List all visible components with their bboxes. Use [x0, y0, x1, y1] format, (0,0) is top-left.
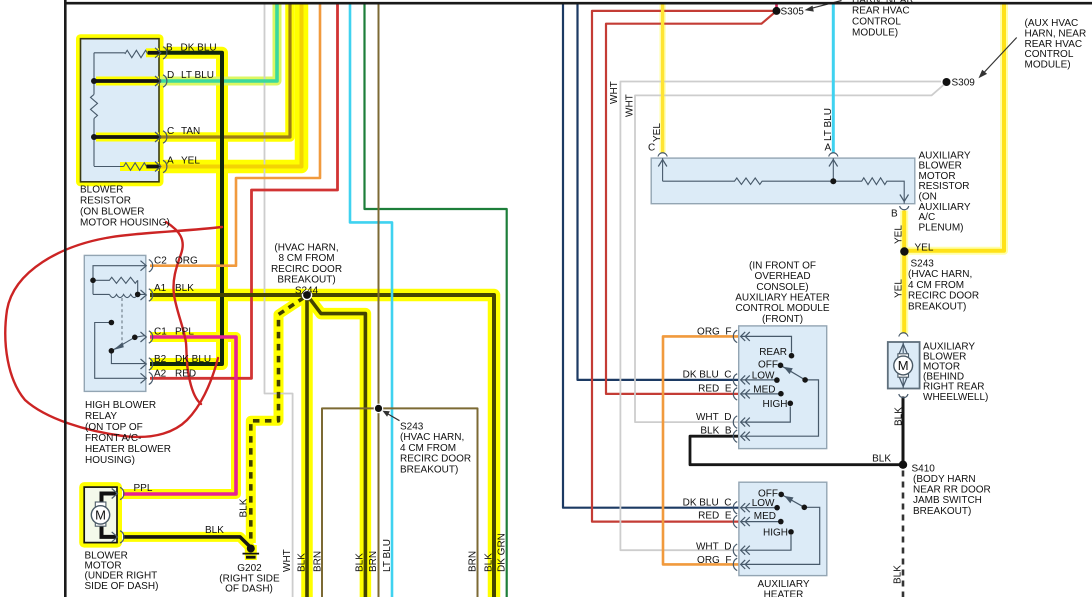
highlight halo wire YEL right big: [904, 4, 1004, 251]
highlight band wire BLK S244 right branch: [307, 295, 365, 597]
svg-text:MOTOR HOUSING): MOTOR HOUSING): [80, 218, 170, 229]
pin C2 connector: [141, 260, 153, 272]
svg-text:S309: S309: [952, 78, 976, 89]
wire DK BLU right inner: [578, 4, 741, 380]
svg-text:WHT D: WHT D: [696, 412, 732, 423]
wire PPL C1 to blower motor: [123, 337, 236, 494]
svg-text:S243: S243: [911, 259, 935, 270]
svg-text:WHT: WHT: [609, 81, 620, 104]
thick lead row C: [94, 135, 161, 139]
page top border: [64, 2, 1092, 5]
module1 common to B: [741, 380, 819, 436]
relay coil resistor branch: [93, 277, 138, 294]
svg-text:MED: MED: [754, 511, 776, 522]
svg-text:ORG: ORG: [175, 256, 198, 267]
module2 pin C connector: [733, 502, 750, 514]
module1 E internal lead: [741, 393, 781, 395]
svg-text:(ON TOP OF: (ON TOP OF: [85, 422, 143, 433]
arrow to S309: [979, 38, 1017, 79]
blower motor internal bracket: [102, 494, 118, 537]
svg-text:REAR: REAR: [759, 347, 787, 358]
svg-text:LT BLU: LT BLU: [181, 70, 214, 81]
svg-text:NEAR RR DOOR: NEAR RR DOOR: [913, 485, 991, 496]
svg-text:DK BLU C: DK BLU C: [683, 370, 732, 381]
aux heater control module front box: [739, 326, 827, 449]
highlight band inside box row B: [146, 48, 159, 57]
svg-text:BLK: BLK: [893, 565, 904, 584]
relay fixed contact lead to A2: [95, 323, 146, 379]
highlight band G202 ground: [245, 545, 257, 560]
node S410: [899, 461, 907, 469]
thick lead row A: [146, 165, 160, 169]
blower resistor internal left bus: [93, 53, 95, 166]
svg-text:BRN: BRN: [468, 551, 479, 572]
svg-text:(FRONT): (FRONT): [762, 314, 803, 325]
module1 F internal lead: [741, 336, 792, 352]
svg-text:BLK: BLK: [205, 525, 224, 536]
svg-text:YEL: YEL: [894, 225, 905, 244]
resistor zigzag row B: [125, 50, 148, 57]
module2 pin E connector: [733, 515, 750, 527]
svg-text:CONTROL MODULE: CONTROL MODULE: [735, 303, 829, 314]
wire LT BLU center vertical: [350, 4, 392, 597]
module1 pin B connector: [733, 430, 750, 442]
svg-text:HIGH: HIGH: [763, 528, 788, 539]
svg-text:LOW: LOW: [752, 498, 775, 509]
node S243 left: [374, 404, 382, 412]
pin C connector: [155, 131, 167, 143]
svg-text:YEL: YEL: [652, 123, 663, 142]
svg-text:C: C: [167, 126, 174, 137]
relay blade arrowhead: [113, 342, 124, 350]
svg-text:LT BLU: LT BLU: [382, 539, 393, 572]
highlight band on blower motor box outline: [84, 487, 117, 542]
wire WHT right inner to S309: [635, 85, 944, 422]
pin A2 connector: [141, 372, 153, 384]
svg-text:BRN: BRN: [313, 551, 324, 572]
blower resistor row A lead: [94, 166, 124, 168]
relay C2 internal lead: [93, 266, 146, 281]
highlight band inside box row D: [96, 77, 159, 86]
module2 switch blade: [781, 494, 804, 507]
aux blower motor resistor box: [651, 158, 915, 204]
relay switch blade: [111, 337, 134, 351]
svg-text:RED E: RED E: [698, 384, 732, 395]
svg-text:BLK: BLK: [239, 498, 250, 517]
arrow to S243 left: [383, 411, 400, 421]
highlight band wire BLK blower motor to G202: [123, 537, 251, 548]
svg-text:TAN: TAN: [181, 126, 200, 137]
aux blower motor box: [888, 342, 920, 389]
module1 pin E connector: [733, 388, 750, 400]
svg-text:BLK: BLK: [894, 407, 905, 426]
module1 blade arrowhead: [784, 367, 793, 374]
svg-text:(HVAC HARN,: (HVAC HARN,: [908, 269, 972, 280]
relay blade to B2: [111, 351, 145, 364]
relay contact C1 lead: [135, 336, 146, 338]
svg-text:ORG F: ORG F: [697, 327, 731, 338]
svg-text:PPL: PPL: [134, 483, 153, 494]
thick lead row D: [94, 79, 161, 83]
pin C1 connector: [141, 331, 153, 343]
svg-text:(BODY HARN: (BODY HARN: [913, 474, 976, 485]
svg-text:LT BLU: LT BLU: [823, 108, 834, 141]
resistor zigzag row A: [124, 163, 147, 170]
wire YEL aux resistor C: [661, 4, 664, 153]
module1 MED dot: [778, 391, 784, 397]
annotation red loop outer: [5, 227, 222, 437]
svg-text:(IN FRONT OF: (IN FRONT OF: [749, 260, 816, 271]
wire ORG C2: [150, 4, 320, 266]
svg-text:PPL: PPL: [175, 326, 194, 337]
aux resistor pin C internal lead: [662, 158, 664, 181]
module2 common to F: [741, 507, 820, 564]
svg-text:DK BLU: DK BLU: [181, 43, 217, 54]
svg-text:AUXILIARY HEATER: AUXILIARY HEATER: [735, 293, 829, 304]
module2 common dot: [802, 505, 808, 511]
svg-text:M: M: [898, 358, 909, 373]
svg-text:HEATER BLOWER: HEATER BLOWER: [85, 444, 171, 455]
relay coil dot left: [90, 278, 96, 284]
module1 HIGH dot: [788, 401, 794, 407]
highlight halo wire YEL aux C: [659, 4, 666, 153]
wire RED A2: [150, 4, 338, 378]
svg-text:LOW: LOW: [752, 371, 775, 382]
svg-text:CONSOLE): CONSOLE): [756, 282, 808, 293]
junction dot row D: [91, 78, 97, 84]
pin A1 connector: [141, 289, 153, 301]
module1 REAR dot: [789, 353, 795, 359]
svg-text:RED: RED: [175, 369, 196, 380]
svg-text:8 CM FROM: 8 CM FROM: [278, 253, 334, 264]
wire DK BLU right outer: [563, 4, 740, 508]
svg-text:RELAY: RELAY: [85, 411, 117, 422]
ground G202 symbol: [243, 545, 260, 558]
module1 pin F connector: [733, 330, 750, 342]
pin motor BLK connector: [112, 531, 124, 543]
aux motor internal leads: [902, 342, 904, 389]
module2 OFF dot: [778, 492, 784, 498]
svg-text:HEATER: HEATER: [764, 589, 804, 597]
module1 pin C connector: [733, 374, 750, 386]
svg-text:(HVAC HARN,: (HVAC HARN,: [274, 243, 338, 254]
svg-text:AUXILIARY: AUXILIARY: [757, 579, 809, 590]
svg-text:WHT: WHT: [625, 94, 636, 117]
svg-text:WHEELWELL): WHEELWELL): [923, 392, 988, 403]
resistor vertical zigzag: [91, 94, 98, 118]
highlight band inside box row C: [96, 133, 159, 142]
pin B arc: [900, 206, 909, 210]
relay coil inductor branch: [93, 280, 146, 297]
thick lead row B: [148, 51, 161, 55]
aux resistor junction dot A: [830, 178, 836, 184]
module2 pin D connector: [733, 544, 750, 556]
svg-text:DK GRN: DK GRN: [497, 533, 508, 572]
svg-text:C: C: [648, 143, 655, 154]
svg-text:BLK: BLK: [297, 553, 308, 572]
highlight band wire DK BLU B: [146, 53, 222, 364]
high blower relay box: [84, 255, 146, 391]
svg-text:MODULE): MODULE): [1025, 59, 1071, 70]
node S309: [943, 78, 951, 86]
module2 C internal lead: [741, 507, 777, 509]
wire BRN S243 branch: [322, 408, 478, 597]
svg-text:(ON BLOWER: (ON BLOWER: [80, 207, 144, 218]
wire BLK S244 right branch: [307, 295, 365, 597]
relay coil dot right: [135, 292, 141, 298]
pin A arc: [829, 153, 838, 157]
svg-text:BLK B: BLK B: [700, 426, 731, 437]
svg-text:S305: S305: [781, 7, 805, 18]
relay blade pivot dot: [109, 348, 115, 354]
node S305: [773, 7, 781, 15]
aux motor arrow top: [899, 344, 908, 355]
pin C arc: [658, 153, 667, 157]
svg-text:4 CM FROM: 4 CM FROM: [400, 443, 456, 454]
blower motor box: [84, 487, 117, 542]
wire YEL right big to S243: [904, 4, 1004, 251]
wire LT BLU D (drawn green): [150, 4, 277, 81]
module2 pin F connector: [733, 558, 750, 570]
highlight band wire BLK A1 main: [150, 295, 494, 597]
blower motor M circle: [91, 506, 109, 524]
aux motor brush tab bottom: [898, 373, 909, 377]
svg-text:HIGH BLOWER: HIGH BLOWER: [85, 400, 156, 411]
svg-text:MED: MED: [753, 385, 775, 396]
svg-text:OF DASH): OF DASH): [225, 584, 273, 595]
wire BLK dashed below S410: [902, 471, 905, 597]
module1 LOW dot: [774, 377, 780, 383]
highlight band wire PPL: [123, 337, 236, 494]
pin D connector: [155, 75, 167, 87]
highlight band wire YEL A: [150, 2, 302, 167]
svg-text:CONTROL: CONTROL: [852, 17, 901, 28]
module1 C internal lead: [741, 379, 777, 381]
aux resistor pin A internal lead: [832, 158, 834, 181]
highlight band wire BLK S244 center branch: [301, 295, 313, 597]
svg-text:BREAKOUT): BREAKOUT): [277, 275, 335, 286]
node S243 right: [900, 247, 908, 255]
blower resistor row B lead: [94, 52, 125, 54]
wire DK GRN: [365, 4, 507, 597]
svg-text:REAR HVAC: REAR HVAC: [852, 6, 910, 17]
wire BRN main vertical: [378, 4, 380, 597]
wire BLK aux motor to S410: [902, 397, 905, 465]
svg-text:DK BLU C: DK BLU C: [683, 498, 732, 509]
svg-text:B2: B2: [154, 354, 167, 365]
highlight band wire BLK dashed ground branch: [251, 297, 305, 543]
highlight halo wire YEL resistor B to aux motor: [900, 211, 908, 334]
svg-text:A: A: [825, 143, 832, 154]
svg-text:FRONT A/C-: FRONT A/C-: [85, 433, 141, 444]
svg-text:BLK: BLK: [484, 553, 495, 572]
pin B2 connector: [141, 358, 153, 370]
svg-text:4 CM FROM: 4 CM FROM: [908, 280, 964, 291]
aux resistor element row: [663, 178, 905, 204]
wire BLK S244 center branch: [305, 295, 309, 597]
svg-text:M: M: [95, 508, 106, 523]
svg-text:BLK: BLK: [872, 454, 891, 465]
relay armature dashed link: [121, 298, 123, 345]
pin A connector: [155, 160, 167, 172]
svg-text:BLK: BLK: [355, 553, 366, 572]
highlight band wire LT BLU D (lime): [150, 2, 277, 81]
svg-text:G202: G202: [237, 563, 262, 574]
svg-text:BLK: BLK: [175, 283, 194, 294]
svg-text:BREAKOUT): BREAKOUT): [908, 301, 966, 312]
svg-text:RESISTOR: RESISTOR: [80, 196, 131, 207]
module1 D internal lead: [741, 407, 790, 423]
svg-text:RED E: RED E: [698, 511, 732, 522]
svg-text:DK BLU: DK BLU: [175, 354, 211, 365]
svg-text:A1: A1: [154, 283, 167, 294]
svg-text:RECIRC DOOR: RECIRC DOOR: [908, 291, 979, 302]
module1 OFF dot: [778, 363, 784, 369]
svg-text:BLOWER: BLOWER: [80, 185, 123, 196]
module2 MED dot: [778, 519, 784, 525]
wire BLK dashed to G202: [251, 298, 304, 542]
pin motor PPL connector: [112, 487, 124, 499]
svg-text:YEL: YEL: [181, 156, 200, 167]
pin B connector: [155, 47, 167, 59]
wire TAN C: [150, 4, 290, 137]
wire YEL resistor B to aux motor: [902, 211, 906, 334]
svg-text:SIDE OF DASH): SIDE OF DASH): [85, 581, 159, 592]
highlight band on blower resistor box outline: [81, 39, 160, 182]
node S244: [302, 290, 311, 299]
svg-text:A2: A2: [154, 369, 167, 380]
arrow to S305: [805, 1, 842, 12]
highlight band wire TAN C: [150, 2, 290, 137]
annotation red loop inner stroke: [166, 222, 201, 404]
svg-text:ORG F: ORG F: [697, 555, 731, 566]
wire LT BLU aux resistor A: [832, 4, 835, 153]
aux heater control module rear box: [739, 482, 827, 575]
wire BLK module1 B to S410: [690, 436, 903, 465]
svg-text:S243: S243: [400, 422, 424, 433]
svg-text:RECIRC DOOR: RECIRC DOOR: [400, 454, 471, 465]
wire WHT right outer to S309: [620, 82, 941, 551]
svg-text:BREAKOUT): BREAKOUT): [913, 506, 971, 517]
relay fixed contact dot: [109, 320, 115, 326]
svg-text:BRN: BRN: [368, 551, 379, 572]
wire WHT left vertical: [265, 4, 293, 597]
svg-text:OFF: OFF: [758, 359, 778, 370]
aux resistor arrow C: [658, 160, 667, 167]
module2 LOW dot: [774, 505, 780, 511]
blower motor brush tab top: [95, 502, 106, 507]
aux motor pin arc bottom: [899, 394, 908, 398]
wire RED stub above S305: [775, 3, 778, 9]
svg-text:D: D: [167, 70, 174, 81]
wire RED right inner S305: [606, 11, 777, 394]
svg-text:BREAKOUT): BREAKOUT): [400, 464, 458, 475]
module2 blade arrowhead: [784, 496, 793, 503]
junction dot row C: [91, 134, 97, 140]
svg-text:YEL: YEL: [894, 279, 905, 298]
module1 pin D connector: [733, 416, 750, 428]
blower resistor box: [81, 39, 160, 182]
svg-text:PLENUM): PLENUM): [919, 222, 964, 233]
svg-text:B: B: [891, 209, 898, 220]
module2 D internal lead: [741, 535, 791, 550]
aux motor M circle: [894, 356, 913, 375]
wire YEL A: [150, 4, 302, 167]
aux motor brush tab top: [898, 354, 909, 358]
aux resistor arrow A: [829, 160, 838, 167]
BOXES: [81, 39, 920, 576]
svg-text:MODULE): MODULE): [852, 28, 898, 39]
page left border: [64, 0, 67, 597]
wire BLK blower motor to G202: [123, 537, 251, 548]
svg-text:YEL: YEL: [915, 243, 934, 254]
svg-text:(HVAC HARN,: (HVAC HARN,: [400, 432, 464, 443]
svg-text:C2: C2: [154, 256, 167, 267]
relay contact dot C1: [132, 335, 138, 341]
svg-text:A: A: [167, 156, 174, 167]
module2 HIGH dot: [788, 529, 794, 535]
svg-text:B: B: [166, 43, 173, 54]
aux motor arrow bottom: [899, 376, 908, 387]
module2 E internal lead: [741, 521, 781, 523]
aux motor pin arc top: [899, 333, 908, 337]
wire DK BLU B to relay B2: [150, 53, 222, 364]
svg-text:HIGH: HIGH: [763, 399, 788, 410]
svg-text:S244: S244: [295, 285, 319, 296]
svg-text:C1: C1: [154, 326, 167, 337]
highlight band inside box row A: [120, 162, 159, 171]
svg-text:RECIRC DOOR: RECIRC DOOR: [271, 264, 342, 275]
wire BLK A1 main: [150, 295, 494, 597]
module1 switch blade: [781, 365, 806, 380]
module1 common dot: [802, 377, 808, 383]
svg-text:WHT: WHT: [282, 549, 293, 572]
blower motor brush tab bottom: [95, 522, 106, 527]
svg-text:HOUSING): HOUSING): [85, 455, 135, 466]
wire RED right outer S305: [592, 11, 777, 522]
wire ORG module1 F to module2 F: [663, 336, 740, 564]
svg-text:JAMB SWITCH: JAMB SWITCH: [913, 495, 982, 506]
aux resistor arrow B: [900, 195, 909, 202]
svg-text:WHT D: WHT D: [696, 541, 732, 552]
svg-text:OVERHEAD: OVERHEAD: [754, 271, 810, 282]
